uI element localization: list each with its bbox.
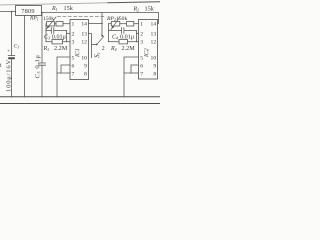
svg-text:0.01μ: 0.01μ: [52, 34, 67, 41]
capacitor C4: [121, 28, 124, 34]
svg-text:R3: R3: [43, 46, 50, 52]
svg-text:1: 1: [140, 21, 143, 27]
svg-text:R2: R2: [133, 6, 140, 12]
wire R3 row right: [63, 41, 67, 43]
wire C5 to ground rail: [41, 65, 43, 96]
svg-text:100μ/16V: 100μ/16V: [5, 59, 12, 92]
svg-text:IC1: IC1: [75, 48, 81, 58]
wire C5 branch: [41, 13, 43, 63]
svg-text:12: 12: [81, 39, 87, 45]
IC2 box: [139, 20, 158, 80]
resistor R4: [119, 40, 128, 44]
wire to IC2 pin3: [137, 41, 139, 43]
regulator U1 box: [16, 6, 42, 16]
potentiometer RP1: [47, 22, 55, 27]
svg-text:9: 9: [153, 63, 156, 69]
ground rail: [0, 96, 160, 98]
svg-text:14: 14: [81, 21, 87, 27]
svg-text:7809: 7809: [21, 8, 34, 15]
resistor R2: [120, 23, 127, 25]
wire C1 to ground rail: [11, 59, 13, 97]
node left rail of right RC: [108, 24, 110, 42]
node right rail of right RC: [136, 31, 138, 42]
wire IC2 pin5 ground: [124, 57, 139, 97]
wire cap row right: [54, 30, 67, 32]
junction node pin14: [101, 23, 103, 25]
wire IC1 pin14 to supply: [89, 23, 103, 25]
wire to IC2 pin2: [137, 33, 139, 35]
wire cap row left: [46, 30, 51, 32]
svg-text:C5 0.1μ: C5 0.1μ: [34, 54, 41, 78]
node right rail of left RC: [66, 31, 68, 42]
svg-text:0.01μ: 0.01μ: [120, 34, 135, 41]
IC1 box: [70, 20, 89, 80]
svg-text:R1: R1: [51, 6, 58, 12]
wire to IC1 pin2: [67, 33, 71, 35]
wire IC2 pin7: [124, 72, 139, 74]
svg-text:150k: 150k: [43, 16, 54, 22]
svg-text:6: 6: [72, 63, 75, 69]
svg-text:15k: 15k: [64, 5, 74, 12]
wire input to regulator: [0, 11, 16, 13]
svg-text:14: 14: [151, 21, 157, 27]
svg-text:2.2M: 2.2M: [54, 45, 68, 52]
svg-text:15k: 15k: [145, 5, 155, 12]
wire cap row left right RC: [109, 30, 122, 32]
junction node C5: [41, 12, 43, 14]
node left rail of left RC: [45, 24, 47, 42]
svg-text:2: 2: [140, 31, 143, 37]
svg-text:R4: R4: [110, 46, 117, 52]
wire R3 row left: [46, 41, 52, 43]
wire R2 to IC2 pin1: [134, 23, 139, 25]
wire IC1 pin5 ground: [57, 57, 70, 97]
wire IC2 pin6: [131, 65, 139, 73]
resistor R1: [55, 23, 57, 25]
capacitor C5: [39, 63, 46, 65]
svg-text:9: 9: [84, 63, 87, 69]
svg-text:RP1: RP1: [29, 16, 39, 22]
IC2 pin numbers: [140, 21, 156, 77]
svg-text:C1: C1: [14, 44, 20, 50]
svg-text:RP2150k: RP2150k: [106, 16, 127, 22]
svg-text:10: 10: [81, 55, 87, 61]
svg-text:2.2M: 2.2M: [122, 45, 136, 52]
wire IC1 pin6: [61, 65, 70, 73]
svg-text:5: 5: [72, 55, 75, 61]
svg-text:2: 2: [72, 31, 75, 37]
svg-text:3: 3: [72, 39, 75, 45]
svg-text:IC2: IC2: [144, 48, 150, 58]
svg-text:+: +: [7, 49, 10, 54]
svg-text:8: 8: [84, 71, 87, 77]
wire to IC1 pin3: [67, 41, 71, 43]
svg-text:5: 5: [140, 55, 143, 61]
capacitor C1: [8, 55, 15, 57]
svg-text:2: 2: [102, 46, 105, 52]
switch S1: [96, 44, 98, 46]
svg-text:7: 7: [72, 71, 75, 77]
svg-text:12: 12: [151, 39, 157, 45]
wire cap row right right RC: [124, 30, 137, 32]
capacitor C3: [51, 28, 54, 34]
potentiometer RP2: [109, 23, 112, 25]
svg-text:13: 13: [151, 31, 157, 37]
resistor R3: [52, 40, 63, 44]
dashed gang line RP1-RP2: [58, 16, 107, 18]
top scan line: [0, 3, 108, 5]
wire supply drop to IC2 pin14: [158, 13, 159, 24]
svg-text:6: 6: [140, 63, 143, 69]
wire R4 row left: [109, 41, 120, 43]
svg-text:10: 10: [151, 55, 157, 61]
svg-text:7: 7: [140, 71, 143, 77]
wire IC1 pin7: [57, 72, 70, 74]
wire regulator ground lead: [24, 16, 26, 97]
svg-text:C3: C3: [44, 35, 50, 41]
svg-text:1: 1: [72, 21, 75, 27]
svg-text:3: 3: [140, 39, 143, 45]
wire R1 to IC1 pin1: [63, 23, 70, 25]
svg-text:8: 8: [153, 71, 156, 77]
wire R4 row right: [128, 41, 137, 43]
wire supply rail top: [42, 12, 159, 14]
svg-text:13: 13: [81, 31, 87, 37]
IC1 pin numbers: [72, 21, 88, 77]
junction node C1: [11, 11, 13, 13]
wire IC1 pin13 to switch: [89, 34, 92, 58]
svg-text:C4: C4: [112, 35, 118, 41]
wire C1 branch down: [11, 12, 13, 56]
bottom return line: [0, 103, 160, 105]
